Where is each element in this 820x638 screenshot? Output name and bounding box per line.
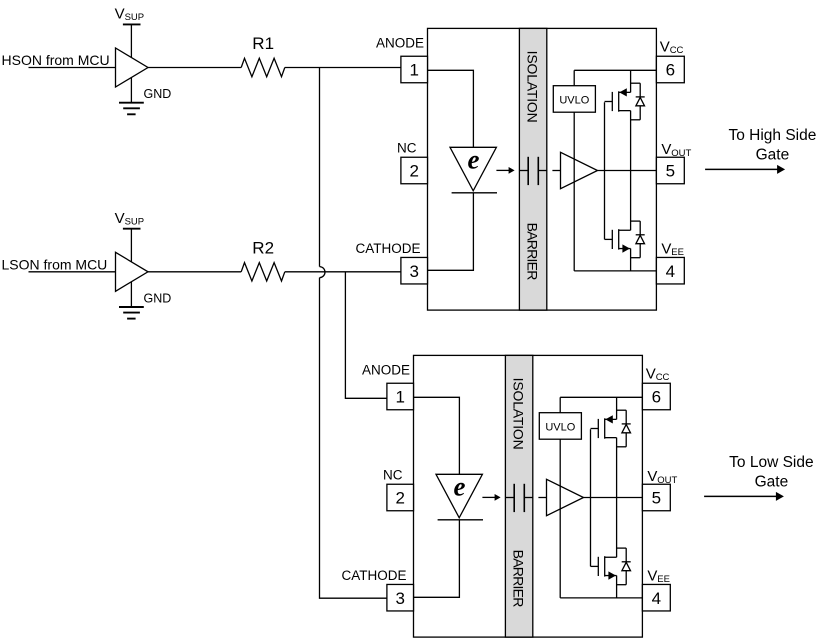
svg-text:ANODE: ANODE: [376, 35, 424, 50]
IC2 pin 3 (CATHODE): [387, 584, 414, 611]
svg-text:6: 6: [652, 388, 661, 407]
svg-text:1: 1: [395, 388, 404, 407]
svg-text:UVLO: UVLO: [559, 94, 589, 106]
svg-text:EE: EE: [671, 247, 684, 258]
diode D3H (Q3 (IC2 high-side) body): [617, 409, 627, 411]
isolation barrier (IC2): [505, 355, 532, 637]
svg-text:NC: NC: [397, 141, 417, 156]
svg-text:V: V: [647, 468, 657, 485]
svg-text:ANODE: ANODE: [362, 362, 410, 377]
svg-text:ISOLATION: ISOLATION: [525, 51, 541, 123]
transistor Q1 (IC1 high-side): [605, 101, 613, 103]
svg-text:V: V: [661, 240, 671, 257]
svg-text:EE: EE: [657, 574, 670, 585]
power VSUP (U2): [123, 228, 141, 230]
light arrow (IC1): [496, 169, 509, 171]
wire LSON net down to IC2 anode: [345, 272, 387, 399]
wire UVLO feed (IC1): [573, 70, 575, 85]
IC2 body: [414, 355, 643, 637]
UVLO (IC1): [553, 86, 595, 113]
svg-text:2: 2: [409, 162, 418, 181]
svg-text:LSON from MCU: LSON from MCU: [2, 257, 108, 273]
wire VCC rail (IC2): [560, 396, 642, 398]
svg-text:R1: R1: [252, 34, 274, 53]
buffer U1: [116, 48, 149, 87]
wire IC2 pin1 to LED anode: [414, 397, 460, 474]
arrow to high side gate: [705, 168, 779, 170]
transistor Q4 (IC2 low-side): [591, 565, 599, 567]
svg-text:3: 3: [409, 262, 418, 281]
svg-text:V: V: [115, 6, 125, 23]
IC1 body: [428, 28, 657, 310]
wire R2 to IC pin: [285, 271, 401, 273]
IC2 pin 2 (NC): [387, 484, 414, 511]
wire R1 to IC pin: [285, 67, 401, 69]
capacitor C (isolation, IC1): [519, 170, 528, 172]
svg-text:HSON from MCU: HSON from MCU: [2, 52, 110, 68]
buffer RX (IC2): [538, 497, 546, 499]
svg-text:V: V: [115, 210, 125, 227]
transistor Q2 (IC1 low-side): [605, 238, 613, 240]
svg-text:5: 5: [666, 162, 675, 181]
IC1 pin 3 (CATHODE): [401, 257, 428, 284]
svg-text:V: V: [647, 567, 657, 584]
IC1 pin 2 (NC): [401, 157, 428, 184]
svg-text:GND: GND: [144, 87, 172, 101]
svg-text:6: 6: [666, 61, 675, 80]
svg-text:UVLO: UVLO: [545, 421, 575, 433]
isolation barrier (IC1): [519, 28, 546, 310]
LED emitter D (IC1): [450, 147, 496, 191]
svg-text:BARRIER: BARRIER: [511, 550, 527, 608]
svg-text:V: V: [646, 365, 656, 382]
svg-text:5: 5: [652, 489, 661, 508]
wire gate drive (IC1): [604, 102, 606, 239]
svg-text:CC: CC: [670, 45, 684, 56]
light arrow (IC2): [482, 496, 495, 498]
wire UVLO to VEE rail (IC2): [559, 439, 561, 598]
svg-text:BARRIER: BARRIER: [525, 223, 541, 281]
svg-text:GND: GND: [144, 291, 172, 305]
svg-text:3: 3: [395, 589, 404, 608]
svg-text:V: V: [660, 38, 670, 55]
wire HSON input: [29, 67, 116, 69]
wire VEE rail (IC1): [574, 270, 656, 272]
capacitor C (isolation, IC2): [505, 497, 514, 499]
IC1 pin 6 (VCC): [656, 56, 684, 83]
svg-text:To High Side: To High Side: [728, 127, 816, 144]
svg-text:To Low Side: To Low Side: [729, 454, 813, 471]
wire UVLO feed (IC2): [559, 397, 561, 412]
IC2 pin 4 (VEE): [642, 584, 670, 611]
svg-text:e: e: [468, 145, 480, 175]
power VSUP (U1): [123, 23, 141, 25]
svg-text:Gate: Gate: [756, 146, 790, 163]
svg-text:ISOLATION: ISOLATION: [511, 378, 527, 450]
arrow to low side gate: [704, 495, 778, 497]
buffer U2: [116, 252, 149, 291]
ground (U2): [130, 282, 132, 307]
transistor Q3 (IC2 high-side): [591, 428, 599, 430]
svg-text:CATHODE: CATHODE: [355, 241, 420, 256]
buffer RX (IC1): [552, 170, 560, 172]
svg-text:SUP: SUP: [125, 12, 145, 23]
wire U to R2: [148, 271, 241, 273]
IC2 pin 1 (ANODE): [387, 383, 414, 410]
IC2 pin 6 (VCC): [642, 383, 670, 410]
wire IC2 pin3 to LED cathode: [414, 520, 460, 598]
svg-text:1: 1: [409, 61, 418, 80]
wire IC1 pin3 to LED cathode: [428, 193, 474, 270]
diode D3L (Q4 (IC2 low-side) body): [617, 547, 627, 549]
svg-text:V: V: [661, 141, 671, 158]
svg-text:e: e: [454, 472, 466, 502]
svg-text:Gate: Gate: [755, 473, 789, 490]
wire HSON net down to IC2 cathode (with hop): [319, 68, 321, 267]
svg-text:4: 4: [652, 589, 661, 608]
resistor R1: [241, 58, 285, 76]
wire IC1 pin1 to LED anode: [428, 70, 474, 147]
IC1 pin 5 (VOUT): [656, 157, 684, 184]
diode D1H (Q1 (IC1 high-side) body): [631, 82, 641, 84]
wire output node (IC2): [584, 497, 643, 499]
svg-text:2: 2: [395, 489, 404, 508]
wire UVLO to VEE rail (IC1): [573, 112, 575, 271]
resistor R2: [241, 263, 285, 281]
UVLO (IC2): [539, 413, 581, 440]
IC1 pin 4 (VEE): [656, 257, 684, 284]
svg-text:OUT: OUT: [657, 475, 677, 486]
wire VCC rail (IC1): [574, 69, 656, 71]
wire output node (IC1): [598, 170, 657, 172]
diode D1L (Q2 (IC1 low-side) body): [631, 220, 641, 222]
svg-text:4: 4: [666, 262, 675, 281]
svg-text:R2: R2: [252, 239, 274, 258]
svg-text:SUP: SUP: [125, 217, 145, 228]
wire LSON input: [29, 271, 116, 273]
svg-text:CC: CC: [656, 372, 670, 383]
wire gate drive (IC2): [590, 429, 592, 566]
wire U to R1: [148, 67, 241, 69]
ground (U1): [130, 78, 132, 103]
wire VEE rail (IC2): [560, 597, 642, 599]
svg-text:CATHODE: CATHODE: [341, 568, 406, 583]
IC2 pin 5 (VOUT): [642, 484, 670, 511]
IC1 pin 1 (ANODE): [401, 56, 428, 83]
LED emitter D (IC2): [436, 474, 482, 518]
svg-text:NC: NC: [383, 468, 403, 483]
svg-text:OUT: OUT: [671, 148, 691, 159]
